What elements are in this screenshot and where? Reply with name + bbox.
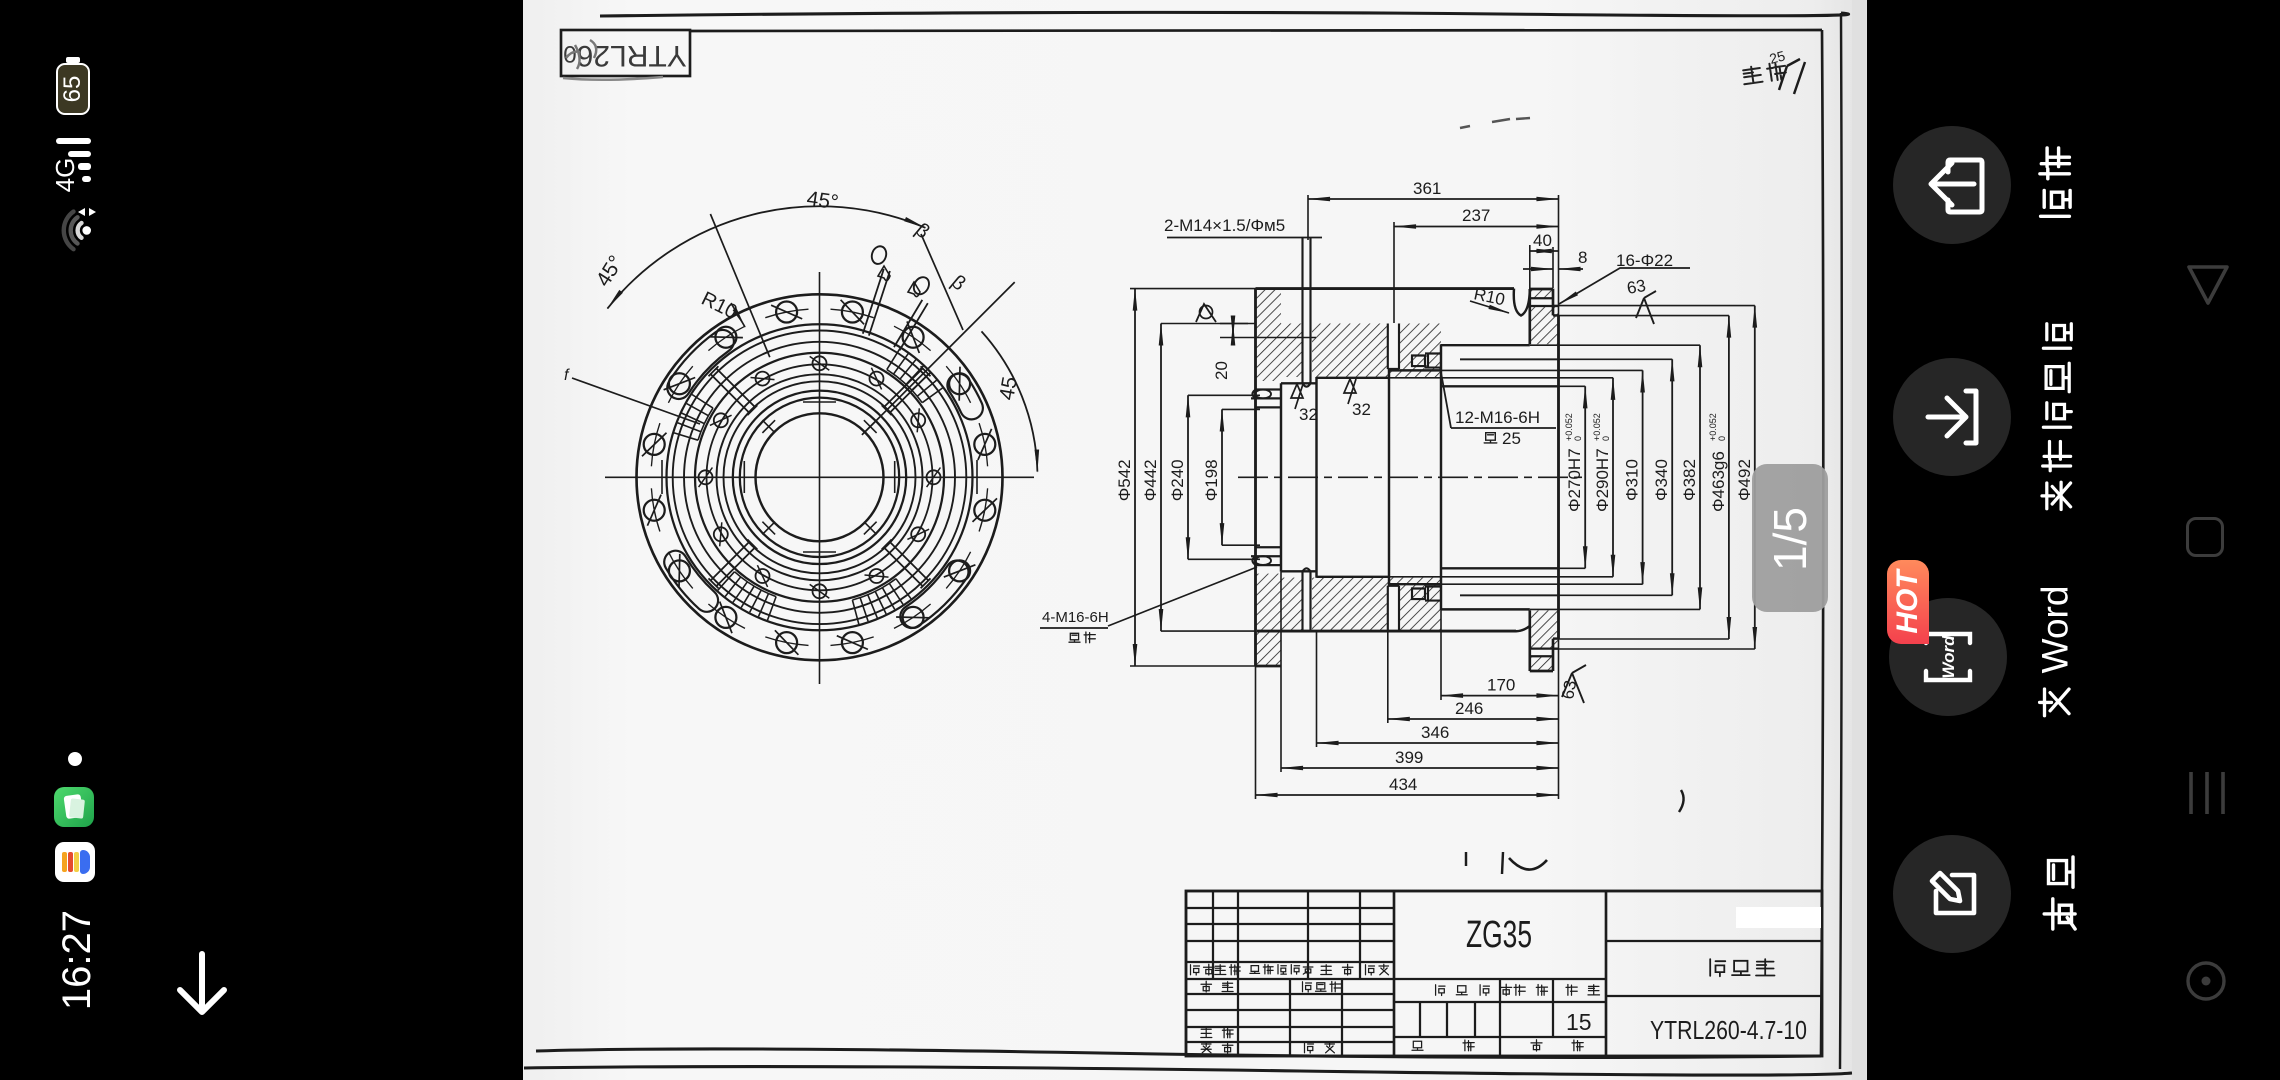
- share button: [1893, 126, 2011, 244]
- clock 16:27: [55, 898, 99, 1022]
- right flange bottom face: [1530, 670, 1553, 673]
- surface check with circle left: [1196, 304, 1216, 322]
- stud side view lower: [1412, 587, 1441, 601]
- lip upper: [1251, 390, 1281, 408]
- front view vertical centerline: [819, 272, 821, 684]
- signal bars: [56, 138, 90, 144]
- machining mark mid: [908, 282, 920, 297]
- scribble tick bottom middle: [1466, 852, 1503, 874]
- 4 flange lugs: [959, 385, 972, 408]
- bolt hole edges in flange lower: [1530, 649, 1559, 657]
- title block main dividers: [1394, 891, 1606, 1056]
- dim &#934;382: [1699, 345, 1701, 609]
- stamp smudge: [566, 40, 596, 69]
- dim 346: [1317, 742, 1559, 744]
- flange right face below spigot: [1552, 639, 1555, 671]
- rim circle D463: [667, 324, 973, 630]
- page badge 1/5: [1752, 464, 1828, 612]
- bore circle D198: [756, 413, 884, 541]
- paper sheet: [523, 0, 1867, 1080]
- hatch band lower: [1281, 578, 1441, 632]
- M16 hole channel upper: [1388, 324, 1399, 370]
- dim 8: [1523, 268, 1553, 270]
- dim Φ442: [1160, 324, 1162, 632]
- ext lines bottom dims: [1256, 572, 1559, 799]
- left section columns lower: [1238, 979, 1342, 1056]
- spigot step top: [1553, 314, 1559, 316]
- 16 outer bolt holes D22: [642, 300, 997, 655]
- bore D382 upper: [1441, 344, 1530, 346]
- dim 361: [1308, 198, 1559, 200]
- dim &#934;310: [1642, 370, 1644, 584]
- dim Φ542: [1134, 289, 1136, 666]
- surface note 其余: [1742, 62, 1787, 85]
- dim &#934;340: [1671, 359, 1673, 595]
- bore D310 lower: [1389, 583, 1441, 585]
- sheet border bottom line 1: [536, 1049, 1821, 1058]
- R10 relief groove top: [1514, 289, 1530, 316]
- notification dot: [68, 752, 82, 766]
- R10 leader front: [731, 303, 745, 327]
- M14 hole channel upper: [1303, 238, 1311, 387]
- hatch band upper: [1281, 324, 1441, 378]
- inner right face v1441: [1440, 344, 1442, 610]
- hatch right flange upper b: [1530, 306, 1558, 344]
- dim 20: [1232, 324, 1234, 338]
- placeholder groups filled in later: [524, 0, 1866, 1080]
- middle header row 图样标记 重量 比例: [1394, 979, 1606, 1037]
- dim arc 45deg top: [607, 206, 925, 308]
- left section columns upper: [1213, 891, 1360, 979]
- radial line 112.5deg: [710, 214, 769, 357]
- part top face D542: [1256, 287, 1515, 290]
- step face v1316: [1315, 377, 1317, 578]
- nav lines: [2185, 770, 2229, 816]
- bore D270 seat lower: [1441, 567, 1559, 569]
- circle D290: [724, 381, 916, 573]
- circle D270: [733, 391, 906, 564]
- section centerline: [1238, 476, 1582, 478]
- dim Φ240: [1187, 395, 1189, 559]
- surface 63 bottom: [1562, 665, 1586, 703]
- bore step a upper: [1281, 382, 1317, 384]
- ext lines left dims: [1130, 289, 1260, 666]
- 4G label: [52, 144, 78, 206]
- circle D416: [684, 342, 955, 613]
- ext lines right dims: [1389, 306, 1755, 649]
- hatch right flange lower b: [1530, 656, 1553, 671]
- hatch slot gaps lower: [1302, 571, 1313, 633]
- dim Φ198: [1221, 409, 1223, 545]
- bolt circle arcs: [651, 309, 987, 645]
- hatch slot gaps upper: [1302, 322, 1313, 384]
- hatch right flange upper a: [1530, 289, 1553, 298]
- part name 轴承座: [1710, 959, 1774, 976]
- dim &#934;270H7: [1584, 386, 1586, 568]
- nav triangle: [2183, 259, 2233, 309]
- leader f: [572, 378, 700, 424]
- grease hole studs 2-M14: [863, 269, 890, 336]
- machining mark upper-right: [878, 266, 890, 281]
- middle small cells: [1420, 1002, 1475, 1037]
- part bottom face D442: [1257, 630, 1516, 633]
- flange right face above spigot: [1552, 289, 1555, 316]
- nav circle-dot: [2184, 959, 2228, 1003]
- bore D382 lower: [1441, 608, 1530, 610]
- radial line 45deg NE: [862, 282, 1015, 435]
- sheet outer border top: [600, 12, 1849, 16]
- dim &#934;290H7: [1612, 378, 1614, 577]
- download arrow: [172, 950, 234, 1020]
- sheet border bottom line 2: [524, 1067, 1852, 1076]
- M14 hole channel lower: [1303, 568, 1311, 631]
- spigot step bottom: [1553, 637, 1559, 639]
- paper right edge shade: [1852, 0, 1866, 1080]
- part left face: [1254, 289, 1257, 666]
- right flange top face: [1530, 288, 1553, 291]
- outer flange circle D542: [637, 294, 1003, 660]
- surface note check symbol: [1779, 59, 1805, 94]
- bore D290 seat upper: [1317, 377, 1390, 379]
- hot badge: [1887, 560, 1929, 644]
- right flange left face lower: [1528, 610, 1531, 671]
- M16 hole channel lower: [1388, 586, 1399, 631]
- sheet inner frame top: [690, 30, 1822, 31]
- face line D340: [1460, 359, 1559, 595]
- R10 relief groove bottom: [1514, 626, 1530, 631]
- section mark line: [921, 234, 963, 330]
- battery percent 65: [59, 59, 87, 119]
- faint scribble top middle: [1460, 118, 1530, 128]
- colorful app icon: [55, 842, 95, 882]
- circle D240: [740, 398, 899, 557]
- title block outer box: [1186, 891, 1822, 1056]
- scribble paren right: [1679, 790, 1684, 812]
- dim 434: [1256, 794, 1559, 796]
- sheet outer border right: [1840, 13, 1842, 1069]
- axis ticks: [662, 402, 977, 552]
- ladder hatch sectors: [887, 348, 943, 402]
- surface 32 marks: [1291, 384, 1303, 409]
- diagonal stud double-lines: [882, 366, 931, 415]
- wifi icon rotated: [52, 198, 98, 264]
- left section rows: [1186, 908, 1394, 1042]
- bore D310 upper: [1389, 369, 1441, 371]
- bore D290 seat lower: [1317, 576, 1390, 578]
- bore step a lower: [1281, 570, 1317, 572]
- right section dividers: [1606, 941, 1822, 996]
- dim 399: [1281, 767, 1559, 769]
- stamp box YTRL260: [561, 30, 690, 76]
- dim arc 45deg right: [982, 331, 1038, 471]
- header row text 标记 处数 更改文件号 签字 日期: [1191, 964, 1389, 1053]
- ext lines top dims: [1308, 195, 1559, 323]
- inner face v1281: [1280, 383, 1282, 571]
- dim 40: [1530, 250, 1559, 252]
- stud side view upper: [1412, 354, 1441, 368]
- bore D270 seat upper: [1441, 385, 1559, 387]
- bolt hole edges in flange upper: [1530, 298, 1559, 306]
- scribble arc bottom middle: [1509, 858, 1547, 870]
- save button: [1893, 358, 2011, 476]
- hatch left flange column lower: [1256, 574, 1281, 666]
- circle D310: [717, 374, 923, 580]
- bolt circle D340: [707, 364, 933, 590]
- word button: [1889, 598, 2007, 716]
- dim 170: [1441, 695, 1559, 697]
- step face v1389: [1388, 369, 1390, 586]
- stamp underline smudge: [563, 77, 663, 80]
- bore tick marks: [762, 420, 775, 433]
- nav square: [2186, 517, 2224, 557]
- lip lower: [1251, 547, 1281, 565]
- 12 inner tapped holes M16: [699, 356, 941, 598]
- hatch left flange column upper: [1256, 290, 1281, 382]
- circle D382: [695, 353, 944, 602]
- edit button: [1893, 835, 2011, 953]
- front view horizontal centerline: [605, 476, 1034, 478]
- phone ui layer: [0, 0, 2280, 2]
- whiteout patch: [1736, 907, 1821, 928]
- hatch right flange lower a: [1530, 610, 1558, 648]
- left flange bottom face: [1256, 665, 1282, 668]
- sheet inner frame right: [1821, 30, 1823, 1056]
- dim &#934;463g6: [1728, 316, 1730, 639]
- dim &#934;492: [1754, 306, 1756, 649]
- dim 246: [1388, 718, 1559, 720]
- status battery icon: [56, 63, 90, 115]
- part right face: [1557, 315, 1560, 638]
- circle D442: [673, 331, 967, 625]
- dim 237: [1394, 226, 1559, 228]
- green app icon: [54, 787, 94, 827]
- right flange left face upper: [1528, 289, 1531, 344]
